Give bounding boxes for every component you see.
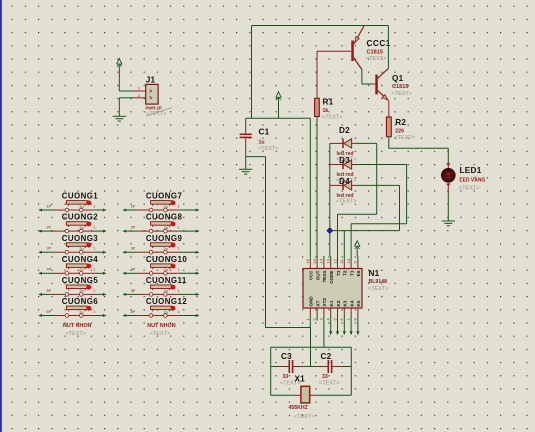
svg-text:XT2: XT2	[322, 298, 327, 307]
text placeholder (J1)	[146, 108, 172, 118]
resistor R1	[315, 98, 320, 116]
button CUONG12	[122, 306, 199, 317]
pin 12 (T3) top stub	[332, 256, 337, 269]
svg-text:CUONG11: CUONG11	[146, 276, 187, 285]
button CUONG3	[38, 243, 106, 254]
svg-text:R1: R1	[323, 97, 334, 106]
svg-text:<TEXT>: <TEXT>	[319, 381, 339, 387]
svg-text:1k: 1k	[323, 108, 329, 114]
svg-text:K1: K1	[329, 300, 334, 306]
svg-text:R2: R2	[395, 118, 406, 127]
window edge strip	[0, 0, 2, 432]
svg-text:1: 1	[177, 268, 179, 272]
button CUONG5	[38, 285, 106, 296]
wire resonator loop	[271, 347, 352, 395]
svg-text:VCC: VCC	[309, 270, 314, 280]
svg-text:CUONG6: CUONG6	[62, 297, 99, 306]
svg-text:1: 1	[93, 289, 95, 293]
svg-text:<TEXT>: <TEXT>	[336, 199, 356, 205]
svg-text:C1815: C1815	[367, 49, 383, 55]
wire D3 cathode to T1 pin	[351, 165, 407, 257]
svg-text:3P: 3P	[131, 247, 136, 251]
wire LED1 to ground	[447, 193, 449, 221]
svg-text:1u: 1u	[259, 140, 265, 146]
wire D2 cathode to T3 pin	[338, 143, 377, 256]
svg-text:CUONG8: CUONG8	[146, 213, 183, 222]
connector J1	[138, 84, 158, 104]
pin 2 (XT) bottom stub	[312, 308, 317, 321]
svg-text:K4: K4	[349, 300, 354, 306]
svg-text:XT: XT	[315, 300, 320, 306]
svg-text:2u: 2u	[79, 205, 83, 209]
button CUONG9	[122, 243, 199, 254]
pin 15 (OUT) top stub	[312, 256, 317, 269]
pin 6 (K3) bottom stub	[339, 308, 344, 321]
svg-text:K3: K3	[343, 300, 348, 306]
svg-text:C2: C2	[321, 352, 332, 361]
svg-text:CUONG3: CUONG3	[62, 234, 99, 243]
pin 16 (VCC) top stub	[305, 256, 310, 269]
svg-text:<TEXT>: <TEXT>	[459, 186, 479, 192]
svg-text:<TEXT>: <TEXT>	[294, 414, 314, 420]
svg-text:12: 12	[332, 258, 337, 263]
capacitor C3	[278, 360, 303, 373]
svg-text:K2: K2	[336, 300, 341, 306]
svg-text:10: 10	[346, 258, 351, 263]
svg-text:4P: 4P	[131, 268, 136, 272]
wire J1 pin2 to ground	[119, 98, 145, 117]
svg-text:1P: 1P	[131, 204, 136, 208]
pin 1 (GND) bottom stub	[305, 308, 310, 321]
ground (below LED1)	[442, 221, 455, 226]
svg-text:N1: N1	[369, 269, 380, 278]
wire C1 to ground rail	[246, 157, 311, 328]
svg-text:33: 33	[283, 374, 289, 380]
svg-text:4P: 4P	[47, 268, 52, 272]
power symbol +V (K6 pin)	[355, 241, 360, 256]
wire C1 ground stub	[245, 157, 247, 170]
svg-text:2P: 2P	[47, 226, 52, 230]
junction marker (blue diamond)	[327, 228, 333, 234]
wire diode anode rail to CODE pin	[329, 143, 331, 256]
svg-text:T3: T3	[336, 270, 341, 276]
ic N1 body	[303, 269, 362, 309]
svg-text:2u: 2u	[79, 226, 83, 230]
svg-text:16: 16	[305, 258, 310, 263]
pin 5 (K2) bottom stub	[332, 308, 337, 321]
svg-text:BL9148: BL9148	[369, 279, 388, 285]
svg-text:<TEXT>: <TEXT>	[392, 91, 412, 97]
svg-text:TESS: TESS	[322, 271, 327, 283]
svg-text:3P: 3P	[47, 247, 52, 251]
pin 11 (T2) top stub	[339, 256, 344, 269]
svg-text:14: 14	[319, 258, 324, 263]
pin 7 (K4) bottom stub	[346, 308, 351, 321]
svg-text:GND: GND	[309, 296, 314, 307]
button CUONG7	[122, 200, 199, 211]
svg-text:1: 1	[177, 226, 179, 230]
svg-text:1: 1	[177, 289, 179, 293]
svg-text:K5: K5	[356, 300, 361, 306]
svg-text:C1: C1	[259, 128, 270, 137]
wire K5 with down arrow	[356, 314, 359, 336]
wire XT2 pin to resonator loop	[323, 314, 325, 348]
svg-text:C1815: C1815	[392, 84, 408, 90]
svg-text:13: 13	[326, 258, 331, 263]
svg-text:PWR-2P: PWR-2P	[146, 106, 162, 111]
svg-text:1: 1	[177, 310, 179, 314]
svg-text:D4: D4	[339, 177, 350, 186]
transistor Q1 (NPN)	[375, 68, 388, 100]
button CUONG10	[122, 264, 199, 275]
wire J1 pin1	[119, 90, 145, 92]
svg-text:2u: 2u	[164, 289, 168, 293]
wire R1 to OUT pin	[316, 117, 318, 257]
ground (below C1)	[239, 169, 252, 174]
button CUONG2	[38, 221, 106, 232]
svg-text:6P: 6P	[47, 310, 52, 314]
svg-text:<TEXT>: <TEXT>	[146, 111, 166, 117]
svg-text:455KHZ: 455KHZ	[289, 405, 309, 411]
button CUONG4	[38, 264, 106, 275]
svg-text:CUONG2: CUONG2	[62, 213, 99, 222]
svg-text:CUONG4: CUONG4	[62, 255, 99, 264]
svg-text:LED VÀNG: LED VÀNG	[460, 176, 486, 183]
svg-text:<TEXT>: <TEXT>	[258, 146, 278, 152]
ground (below J1)	[113, 116, 126, 121]
svg-text:CUONG5: CUONG5	[62, 276, 99, 285]
diode D4 (led red)	[330, 181, 356, 190]
wire D4 cathode to T2 pin	[330, 185, 400, 256]
button CUONG11	[122, 285, 199, 296]
wire +V rail to VCC	[246, 118, 311, 256]
svg-text:CODE: CODE	[329, 271, 334, 284]
crystal X1	[294, 386, 317, 403]
svg-text:<TEXT>: <TEXT>	[322, 114, 342, 120]
svg-text:5P: 5P	[131, 289, 136, 293]
svg-text:1: 1	[93, 226, 95, 230]
svg-text:NUT NHON: NUT NHON	[63, 323, 92, 329]
pin 14 (TESS) top stub	[319, 256, 324, 269]
svg-text:T2: T2	[343, 270, 348, 276]
svg-text:CUONG7: CUONG7	[146, 192, 183, 201]
wire K4 with down arrow	[350, 314, 353, 336]
svg-text:LED1: LED1	[460, 166, 482, 175]
svg-text:2u: 2u	[79, 268, 83, 272]
svg-text:<TEXT>: <TEXT>	[395, 135, 415, 141]
svg-text:K6: K6	[356, 270, 361, 276]
pin 13 (CODE) top stub	[326, 256, 331, 269]
svg-text:CUONG1: CUONG1	[62, 192, 99, 201]
svg-text:1: 1	[93, 247, 95, 251]
svg-text:D3: D3	[339, 156, 350, 165]
wire Q1 collector to top rail	[387, 26, 389, 69]
pin 10 (T1) top stub	[346, 256, 351, 269]
transistor CCC1 (PNP)	[351, 26, 364, 70]
button CUONG8	[122, 221, 199, 232]
svg-text:T1: T1	[349, 270, 354, 276]
svg-text:2u: 2u	[79, 247, 83, 251]
capacitor C2	[317, 360, 342, 373]
svg-text:X1: X1	[295, 374, 306, 383]
power symbol +V (rail)	[276, 92, 281, 119]
wire GND pin to ground net and resonator mid node	[309, 314, 311, 367]
svg-text:33: 33	[322, 374, 328, 380]
svg-text:CUONG12: CUONG12	[146, 297, 187, 306]
svg-text:15: 15	[312, 258, 317, 263]
button CUONG1	[38, 200, 106, 211]
svg-text:NUT NHON: NUT NHON	[147, 323, 176, 329]
wire Q1 emitter to R2	[388, 101, 390, 117]
svg-text:<TEXT>: <TEXT>	[66, 331, 86, 337]
svg-text:2u: 2u	[79, 310, 83, 314]
svg-text:<TEXT>: <TEXT>	[368, 286, 388, 292]
svg-text:2u: 2u	[164, 247, 168, 251]
wire CCC1 collector to Q1 base	[362, 70, 375, 85]
svg-text:<TEXT>: <TEXT>	[150, 331, 170, 337]
svg-text:Q1: Q1	[392, 74, 404, 83]
svg-text:2u: 2u	[164, 268, 168, 272]
wire K1 with down arrow	[329, 314, 332, 336]
diode D3 (led red)	[330, 160, 356, 169]
svg-text:6P: 6P	[131, 310, 136, 314]
svg-text:1P: 1P	[47, 204, 52, 208]
svg-text:1: 1	[93, 310, 95, 314]
svg-text:1: 1	[177, 204, 179, 208]
led LED1	[442, 163, 455, 193]
diode D2 (led red)	[330, 139, 356, 148]
wire top rail	[252, 26, 389, 119]
capacitor C1	[240, 118, 252, 156]
wire CCC1 base to R1	[317, 51, 351, 98]
svg-text:D2: D2	[339, 126, 350, 135]
pin 3 (XT2) bottom stub	[319, 308, 324, 321]
power symbol +V (J1)	[117, 59, 122, 92]
svg-text:CUONG10: CUONG10	[146, 255, 187, 264]
svg-text:C3: C3	[281, 352, 292, 361]
svg-text:1: 1	[93, 268, 95, 272]
svg-text:OUT: OUT	[315, 270, 320, 280]
svg-text:2u: 2u	[79, 289, 83, 293]
pin 8 (K5) bottom stub	[353, 308, 358, 321]
svg-text:5P: 5P	[47, 289, 52, 293]
svg-text:CCC1: CCC1	[367, 39, 391, 48]
resistor R2	[386, 117, 391, 137]
wire K3 with down arrow	[343, 314, 346, 336]
svg-text:<TEXT>: <TEXT>	[366, 56, 386, 62]
wire XT pin stub	[316, 314, 318, 321]
svg-text:1: 1	[177, 247, 179, 251]
button CUONG6	[38, 306, 106, 317]
svg-text:2u: 2u	[164, 205, 168, 209]
svg-text:1: 1	[93, 204, 95, 208]
svg-text:2u: 2u	[164, 310, 168, 314]
svg-text:CUONG9: CUONG9	[146, 234, 183, 243]
wire K2 with down arrow	[336, 314, 339, 336]
svg-text:J1: J1	[146, 75, 156, 84]
pin 9 (K6) top stub	[353, 256, 358, 269]
svg-text:2P: 2P	[131, 226, 136, 230]
wire R2 to LED1	[389, 137, 449, 163]
pin 4 (K1) bottom stub	[326, 308, 331, 321]
svg-text:2u: 2u	[164, 226, 168, 230]
svg-text:226: 226	[395, 128, 404, 134]
